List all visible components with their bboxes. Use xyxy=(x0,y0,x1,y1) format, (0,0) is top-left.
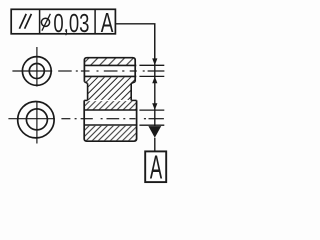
section outline lower flange xyxy=(84,100,136,141)
leader from frame xyxy=(115,24,154,59)
svg-text:A: A xyxy=(101,7,114,38)
vertical dimension line xyxy=(154,24,156,126)
upper hole inner circle xyxy=(29,64,44,79)
upper axis chain line to section xyxy=(58,70,164,72)
lower circle crosshair vertical xyxy=(36,101,38,143)
section outline top flange xyxy=(84,58,135,82)
left shoulder line xyxy=(84,99,87,101)
dimension extension line lower bore top xyxy=(139,109,164,111)
frame divider 1 xyxy=(39,9,41,34)
arrowhead down at lower bore top xyxy=(152,103,157,110)
hatch neck region xyxy=(85,77,135,100)
datum box xyxy=(145,151,166,182)
upper bore bottom line / flange bottom xyxy=(84,75,136,77)
hatch lower flange upper band xyxy=(85,101,136,109)
parallelism symbol // xyxy=(19,14,31,29)
datum triangle xyxy=(148,126,161,138)
upper circle crosshair horizontal xyxy=(12,70,52,72)
lower circle crosshair horizontal xyxy=(8,118,55,120)
dimension extension line upper bore bottom xyxy=(139,75,164,77)
lower bore bottom line xyxy=(84,124,137,126)
neck right edge xyxy=(130,83,132,100)
upper circle crosshair vertical xyxy=(36,47,38,87)
datum stem xyxy=(154,138,156,152)
arrowhead up at upper bore bottom xyxy=(152,77,157,84)
diameter symbol xyxy=(41,14,50,31)
svg-text:A: A xyxy=(150,148,162,185)
dimension extension line upper bore top xyxy=(139,64,164,66)
svg-text:0,03: 0,03 xyxy=(53,8,89,38)
right shoulder line xyxy=(131,99,136,101)
lower bore top line xyxy=(84,109,137,111)
upper bore top line xyxy=(84,64,136,66)
neck right chamfer xyxy=(131,82,135,84)
lower hole inner circle xyxy=(26,109,47,130)
neck left edge xyxy=(87,83,89,100)
lower axis chain line to section xyxy=(61,118,163,120)
lower boss outer circle xyxy=(18,102,54,138)
hatch lower flange lower band xyxy=(85,126,136,141)
feature control frame outer box xyxy=(11,9,115,34)
dimension extension line lower bore bottom xyxy=(139,124,164,126)
upper boss outer circle xyxy=(22,57,51,86)
arrowhead down at upper bore top xyxy=(152,58,157,65)
frame divider 2 xyxy=(94,9,96,34)
neck left chamfer xyxy=(84,82,87,84)
hatch top flange band xyxy=(85,58,134,65)
